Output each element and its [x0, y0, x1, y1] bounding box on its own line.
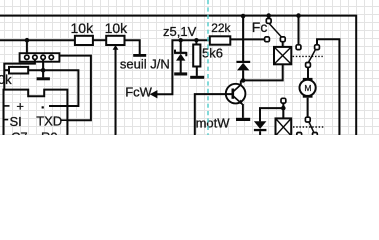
svg-text:+: +: [16, 98, 24, 113]
lamp L1 (box with X): [274, 47, 291, 64]
svg-text:TXD: TXD: [36, 114, 62, 129]
diode D2 (pointing down): [254, 121, 267, 135]
pin + tick: [4, 105, 10, 107]
module box (radio module): [4, 90, 68, 135]
transistor Q1: [226, 80, 246, 118]
ground bar 5k6: [190, 76, 204, 79]
lamp L2 (box with X): [276, 118, 292, 135]
ground bar zener: [174, 72, 187, 75]
ground bar: [133, 54, 146, 57]
node junction on rail2: [25, 38, 30, 43]
pin SI tick: [4, 119, 9, 121]
wire: [93, 39, 106, 41]
node rail to D1: [241, 14, 246, 19]
wire junction to diode D2: [260, 108, 283, 121]
node rail to switch S1: [296, 13, 301, 18]
pin - dot: [42, 106, 44, 108]
svg-text:z5,1V: z5,1V: [163, 24, 197, 39]
switch S2 (reversing, top): [296, 45, 319, 68]
node zener tap: [179, 38, 183, 42]
wire 22k to switch: [230, 38, 264, 40]
ground bar pin3: [37, 77, 50, 80]
wire pot wiper seuil: [115, 49, 117, 136]
wire switch to lamp1: [282, 42, 284, 47]
mechanical link dotted bottom: [293, 126, 323, 128]
wire R3 right to minus pin: [28, 70, 78, 106]
wire to connector pin1: [26, 40, 28, 55]
svg-text:FcW: FcW: [125, 84, 152, 99]
wire contact B up and right to vertical: [317, 39, 339, 135]
wire motor to switch S3: [307, 98, 309, 118]
resistor R3 10k: [4, 69, 9, 71]
potentiometer R2 wiper arrow: [113, 45, 119, 50]
node R3 right junction: [41, 68, 46, 73]
pin TXD tick: [61, 119, 68, 121]
svg-text:R0: R0: [41, 129, 58, 135]
wire pin2 to module +: [4, 59, 35, 89]
svg-text:10k: 10k: [105, 20, 129, 36]
svg-text:M: M: [304, 83, 311, 93]
wire connector to TXD loop: [59, 56, 91, 121]
resistor R4 5k6: [195, 40, 197, 44]
mechanical link dotted: [293, 55, 323, 57]
node rail to Fc switch: [266, 13, 271, 18]
wire base motW: [195, 94, 232, 135]
wire terminal to lamp2: [282, 103, 284, 118]
resistor R5 22k: [210, 36, 231, 44]
wire top supply rail: [0, 16, 356, 135]
potentiometer R2 10k: [106, 36, 124, 45]
wire lamp1 to collector node: [241, 64, 283, 80]
node 5k6 tap: [194, 38, 198, 42]
svg-text:10k: 10k: [0, 72, 12, 87]
diode D1 (freewheel, pointing up): [236, 16, 250, 81]
resistor R1 10k: [75, 36, 93, 45]
switch S3 (reversing, bottom): [297, 117, 318, 137]
svg-text:motW: motW: [196, 116, 231, 131]
svg-text:5k6: 5k6: [202, 45, 223, 60]
svg-text:seuil J/N: seuil J/N: [120, 57, 170, 72]
wire pot right to bar: [125, 40, 140, 54]
svg-text:22k: 22k: [211, 21, 231, 35]
wire rail down to contact: [298, 16, 300, 45]
svg-text:Fc: Fc: [252, 19, 268, 35]
connector J1: [20, 53, 60, 62]
svg-text:10k: 10k: [71, 20, 95, 36]
ground bar emitter: [236, 118, 250, 121]
switch Fc: [265, 16, 286, 42]
terminal circle lamp2: [281, 98, 286, 103]
motor M1: [300, 78, 316, 98]
zener diode Z1: [175, 40, 187, 72]
svg-text:SI: SI: [10, 114, 22, 129]
wire second rail: [0, 39, 75, 41]
node diode junction: [241, 78, 246, 83]
node lamp2 junction: [281, 106, 286, 111]
wire pin3 to ground: [42, 59, 44, 77]
wire switch to motor: [307, 67, 309, 78]
trace separation dashed cyan line: [207, 0, 209, 135]
wire FcW with arrow: [157, 40, 210, 94]
svg-text:C7: C7: [11, 129, 28, 135]
